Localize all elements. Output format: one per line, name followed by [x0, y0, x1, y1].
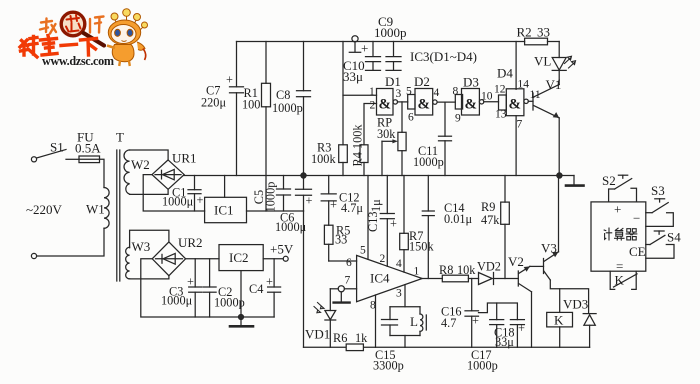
wire cap bank link [479, 303, 518, 320]
wire ground drop left [303, 211, 305, 347]
svg-text:14: 14 [518, 79, 530, 91]
svg-text:30k: 30k [377, 127, 396, 141]
wire mid supply line [184, 175, 574, 177]
photodiode VD1 [305, 289, 336, 348]
svg-text:IC4: IC4 [370, 271, 390, 286]
NAND gate D3 [453, 75, 480, 125]
wire D4 pin14 to rail [515, 42, 517, 90]
node D4 output [524, 89, 541, 104]
svg-text:100: 100 [242, 98, 260, 112]
svg-text:1000p: 1000p [374, 25, 407, 40]
logo dzsc watermark [20, 9, 148, 68]
diode VD2 [477, 260, 518, 285]
switch S2 [602, 173, 637, 202]
wire IC4 output [422, 278, 442, 280]
relay K coil [547, 289, 573, 348]
svg-text:IC1: IC1 [214, 203, 234, 218]
node oscillator supply terminal [349, 36, 368, 56]
svg-text:+: + [187, 275, 194, 289]
svg-text:R9: R9 [481, 200, 495, 214]
wire W2 top to UR1 [130, 150, 169, 160]
node D3 output [479, 91, 498, 105]
svg-text:+: + [197, 193, 204, 207]
transistor V1 [533, 77, 561, 176]
NAND gate D1 [369, 74, 401, 115]
svg-text:C4: C4 [249, 282, 263, 296]
svg-text:3300p: 3300p [373, 359, 404, 373]
capacitor C17 1000p [467, 320, 504, 373]
svg-text:4: 4 [396, 258, 402, 270]
capacitor C4 [249, 259, 281, 317]
svg-text:S3: S3 [651, 183, 665, 198]
wire IC2 output to +5V terminal [263, 258, 283, 260]
wire bottom rail [304, 346, 590, 348]
regulator IC1 [205, 197, 247, 222]
ground symbol IC4 pin7 [334, 292, 350, 303]
wire IC4 pin7 with terminal [330, 275, 356, 292]
node AC bottom terminal [31, 253, 36, 258]
svg-text:D2: D2 [414, 74, 430, 89]
svg-text:1000p: 1000p [413, 155, 444, 169]
wire IC4 pin5 to mid line [360, 176, 368, 260]
svg-text:CE: CE [629, 244, 646, 259]
svg-text:220μ: 220μ [201, 96, 226, 110]
switch S3 [646, 183, 674, 226]
bridge rectifier UR1 [152, 151, 197, 190]
calculator body [591, 202, 646, 274]
wire fuse to W1 [100, 159, 105, 187]
svg-text:+: + [306, 194, 313, 208]
capacitor C10 33u [343, 42, 381, 85]
switch S1 [37, 140, 79, 160]
ground symbol main [566, 176, 584, 186]
capacitor C6 1000u [275, 176, 313, 235]
capacitor C3 1000u [161, 259, 202, 317]
svg-text:R2: R2 [517, 25, 532, 40]
svg-text:+: + [518, 321, 525, 335]
NAND gate D2 [406, 74, 433, 124]
svg-text:1: 1 [369, 86, 375, 98]
svg-text:6: 6 [408, 112, 414, 124]
svg-text:+: + [330, 198, 337, 212]
transistor V3 [541, 176, 589, 314]
svg-text:VD3: VD3 [563, 297, 588, 312]
svg-text:D3: D3 [463, 75, 479, 90]
svg-text:S4: S4 [667, 230, 681, 245]
svg-text:UR2: UR2 [178, 235, 203, 250]
svg-text:S1: S1 [50, 140, 64, 155]
svg-text:D4: D4 [497, 66, 513, 81]
wire V2 emitter to V3 base [530, 265, 544, 267]
svg-text:+: + [361, 41, 368, 56]
svg-text:1000p: 1000p [264, 182, 278, 213]
svg-text:V2: V2 [508, 254, 524, 269]
transformer secondary W2 [124, 150, 150, 194]
svg-text:&: & [509, 97, 522, 113]
svg-text:+: + [472, 314, 479, 328]
svg-text:&: & [465, 97, 478, 113]
resistor R9 47k [481, 176, 509, 279]
svg-text:9: 9 [455, 113, 461, 125]
svg-text:R8: R8 [439, 263, 453, 277]
svg-text:VD2: VD2 [477, 260, 501, 274]
transistor V2 [508, 254, 532, 347]
node junction mid-C6 [301, 173, 306, 178]
svg-text:47k: 47k [481, 213, 500, 227]
svg-text:=: = [616, 259, 623, 274]
svg-text:1000μ: 1000μ [275, 220, 307, 234]
wire W2 bottom to UR1 [130, 189, 169, 194]
svg-text:R6: R6 [333, 331, 347, 345]
resistor R5 33 [324, 224, 350, 262]
svg-text:8: 8 [453, 86, 459, 98]
svg-text:1000p: 1000p [214, 296, 245, 310]
svg-text:3: 3 [396, 288, 402, 300]
svg-text:1000p: 1000p [467, 359, 498, 373]
diode VD3 [563, 297, 596, 348]
resistor R2 33 [517, 25, 560, 45]
wire IC4 pin6 [329, 257, 357, 269]
capacitor C5 1000p [252, 176, 291, 213]
resistor R1 100 [242, 42, 271, 212]
svg-text:&: & [379, 97, 392, 113]
node AC top terminal [31, 157, 36, 162]
svg-text:33: 33 [335, 233, 347, 247]
svg-text:K: K [615, 273, 625, 288]
wire D4 pin7 to mid line [515, 116, 517, 176]
svg-text:11: 11 [530, 89, 541, 101]
svg-text:W2: W2 [131, 157, 150, 172]
potentiometer RP 30k [377, 102, 406, 176]
label calculator (ji suan qi) [604, 228, 637, 240]
svg-text:C13: C13 [366, 212, 380, 233]
svg-text:L: L [410, 314, 418, 329]
ground symbol 5V section [230, 317, 253, 326]
svg-text:6: 6 [346, 257, 352, 269]
svg-text:10: 10 [481, 91, 493, 103]
capacitor C8 1000p [272, 42, 311, 176]
fuse FU 0.5A [75, 130, 101, 163]
svg-text:IC3(D1~D4): IC3(D1~D4) [410, 49, 477, 64]
node junction 5V ground [239, 315, 244, 320]
wire C17 top link [496, 303, 498, 320]
svg-text:W1: W1 [86, 202, 105, 217]
svg-text:4.7: 4.7 [441, 316, 456, 330]
wire UR2 left corner down to 5V ground line [141, 259, 274, 317]
transformer primary W1 [86, 188, 109, 229]
svg-text:13: 13 [495, 109, 507, 121]
svg-text:33μ: 33μ [343, 69, 363, 84]
wire IC1 output line [247, 210, 304, 212]
svg-text:1000μ: 1000μ [161, 294, 193, 308]
wire W1 bottom to AC bottom [37, 228, 104, 256]
svg-text:D1: D1 [385, 74, 401, 89]
svg-text:IC2: IC2 [229, 250, 249, 265]
svg-text:33μ: 33μ [495, 335, 514, 349]
svg-text:S2: S2 [602, 173, 616, 188]
node +5V terminal [270, 242, 294, 262]
capacitor C9 1000p [374, 14, 407, 70]
svg-text:4.7μ: 4.7μ [341, 201, 363, 215]
svg-text:2: 2 [370, 100, 376, 112]
bridge rectifier UR2 [152, 235, 202, 276]
svg-text:3: 3 [396, 88, 402, 100]
capacitor C16 4.7 [441, 279, 479, 348]
svg-text:0.5A: 0.5A [75, 141, 101, 156]
node junction mid-V1 emitter [557, 173, 562, 178]
svg-text:100k: 100k [311, 152, 336, 166]
svg-text:1k: 1k [355, 331, 368, 345]
wire W3 bottom to UR2 [130, 276, 169, 279]
svg-text:5: 5 [360, 245, 366, 257]
svg-text:+: + [390, 217, 397, 231]
capacitor C12 4.7u [321, 176, 363, 226]
svg-text:VL: VL [534, 54, 551, 69]
resistor R8 10k [439, 263, 479, 282]
wire W3 top to UR2 [130, 230, 169, 248]
resistor R3 100k [311, 42, 347, 176]
node D1 output [393, 88, 408, 104]
resistor R4 100k [351, 104, 377, 176]
svg-text:C8: C8 [276, 88, 290, 102]
svg-text:10k: 10k [457, 263, 476, 277]
regulator IC2 [219, 245, 263, 271]
capacitor C2 1000p [203, 259, 245, 317]
svg-text:12: 12 [494, 84, 506, 96]
svg-text:~220V: ~220V [26, 202, 63, 217]
op-amp IC4 [357, 255, 423, 311]
svg-text:UR1: UR1 [172, 151, 197, 166]
svg-text:150k: 150k [409, 240, 434, 254]
svg-text:V3: V3 [541, 241, 557, 256]
transformer T core [116, 130, 124, 282]
svg-text:5: 5 [406, 86, 412, 98]
svg-text:+5V: +5V [270, 242, 294, 257]
wire IC4 pin3 to tank [404, 285, 406, 307]
svg-text:33: 33 [537, 25, 550, 40]
svg-text:+: + [226, 73, 233, 87]
wire top rail [237, 41, 525, 43]
svg-text:1000p: 1000p [272, 101, 303, 115]
capacitor C18 33u [494, 320, 525, 349]
capacitor C13 1u [366, 176, 397, 267]
wire IC2 common to ground [240, 271, 242, 317]
resistor R6 1k [333, 331, 368, 351]
svg-text:+: + [266, 275, 273, 289]
NAND gate D4 [494, 66, 529, 131]
wire UR2 right to IC2 [186, 258, 219, 260]
svg-text:&: & [418, 97, 431, 113]
svg-text:K: K [554, 313, 564, 328]
svg-text:VD1: VD1 [305, 327, 330, 342]
svg-text:7: 7 [345, 275, 351, 287]
svg-text:0.01μ: 0.01μ [444, 212, 473, 226]
svg-text:www.dzsc.com: www.dzsc.com [42, 54, 114, 68]
resistor R7 150k [396, 176, 434, 273]
capacitor C11 1000p [413, 102, 452, 175]
svg-text:T: T [116, 130, 124, 145]
svg-text:1000μ: 1000μ [162, 195, 194, 209]
svg-text:+: + [614, 202, 621, 217]
transformer secondary W3 [126, 239, 151, 279]
svg-text:V1: V1 [546, 77, 562, 92]
svg-text:W3: W3 [132, 239, 151, 254]
svg-text:−: − [633, 211, 640, 226]
LED VL [534, 42, 576, 81]
capacitor C14 0.01u [422, 176, 472, 279]
node D2 output [433, 87, 456, 104]
svg-text:1: 1 [414, 266, 420, 278]
wire IC1 top to mid line [224, 176, 226, 198]
svg-text:4: 4 [434, 87, 440, 99]
tank circuit C15 and L [373, 307, 426, 373]
capacitor C1 1000u [162, 176, 204, 212]
switch K calculator [610, 271, 637, 289]
capacitor C7 220u [201, 42, 244, 176]
wire IC4 pin8 [375, 295, 377, 347]
wire UR1 left corner to IC1 input line [143, 175, 204, 211]
svg-text:7: 7 [517, 119, 523, 131]
svg-text:1μ: 1μ [369, 199, 383, 212]
svg-text:R4 100k: R4 100k [351, 124, 365, 167]
switch S4 [646, 230, 681, 259]
wire D1 pin1 [343, 94, 377, 96]
